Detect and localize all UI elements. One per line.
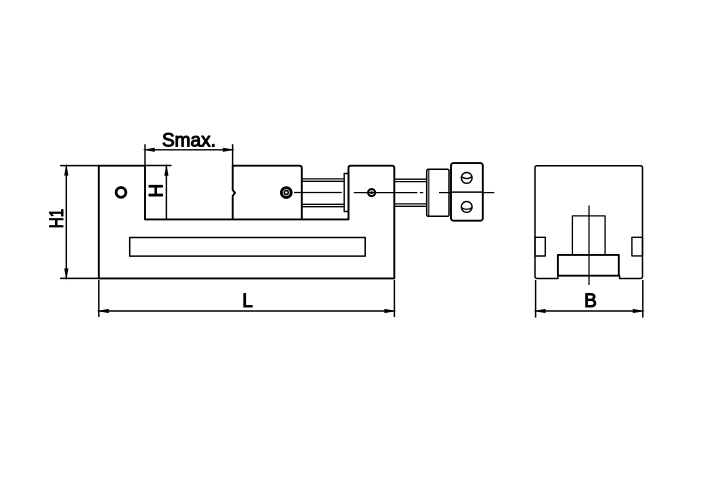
movable jaw block: [233, 166, 302, 220]
collar: [427, 169, 449, 216]
vise body outline (side view): [99, 166, 395, 279]
end view left notch: [535, 237, 545, 256]
screw shaft right of bracket: [394, 179, 426, 206]
svg-text:B: B: [584, 291, 597, 312]
knob upper hole: [461, 173, 472, 184]
svg-text:L: L: [242, 291, 253, 312]
end view right notch: [632, 237, 643, 256]
bracket screw circle: [368, 189, 375, 196]
end view center block: [572, 216, 605, 255]
svg-text:H1: H1: [47, 209, 68, 229]
groove slot in body face: [130, 238, 366, 257]
knob lower hole: [461, 202, 472, 213]
knob: [451, 163, 483, 221]
screw end circle on movable jaw: [281, 188, 291, 198]
end view centerline: [588, 206, 590, 286]
end view bottom pad: [558, 255, 619, 276]
flange plate on bracket: [344, 174, 348, 212]
dimension H1: [60, 166, 99, 279]
dimension B: [536, 280, 643, 318]
dimension L: [99, 280, 395, 317]
dimension Smax: [145, 144, 233, 166]
end view outer outline: [535, 166, 643, 279]
svg-text:Smax.: Smax.: [162, 131, 216, 152]
screw centerline: [294, 192, 494, 194]
svg-text:H: H: [147, 184, 168, 198]
dimension H: [145, 165, 172, 167]
guide rails between jaw and flange: [302, 179, 345, 207]
fixed jaw hole: [116, 188, 126, 198]
